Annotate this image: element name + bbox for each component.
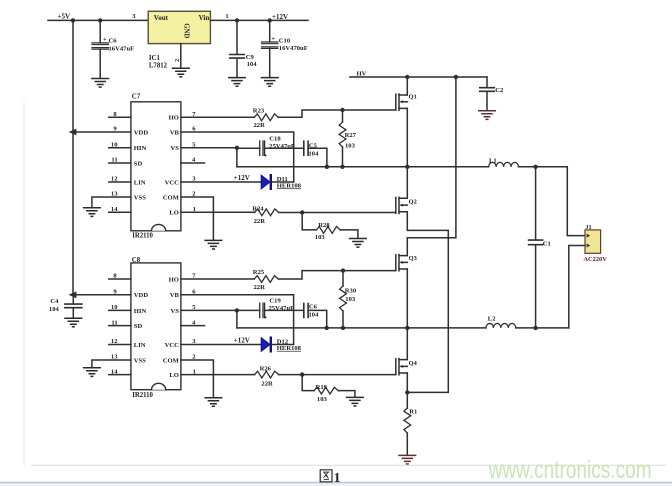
wire pin12 stub chip2 bbox=[109, 344, 131, 346]
wire L1 to J1 pin1 bbox=[519, 167, 586, 236]
svg-text:LO: LO bbox=[169, 372, 179, 379]
junction Q1 drain bbox=[405, 75, 409, 79]
svg-text:HIN: HIN bbox=[134, 145, 147, 152]
pin labels chip1 left bbox=[134, 129, 149, 201]
ground VSS2 bbox=[84, 368, 101, 377]
svg-text:Q3: Q3 bbox=[409, 255, 417, 262]
transistor Q2 bbox=[396, 197, 408, 213]
inductor L1 bbox=[489, 162, 519, 166]
wire pin9 VDD from bus bbox=[73, 131, 131, 133]
svg-text:IC1: IC1 bbox=[149, 55, 161, 62]
wire C18 to C5 bbox=[265, 147, 304, 149]
pin numbers chip2 right bbox=[192, 273, 196, 376]
ground COM2 bbox=[205, 398, 222, 407]
svg-text:22R: 22R bbox=[254, 122, 266, 129]
svg-text:VB: VB bbox=[170, 292, 180, 299]
svg-text:1: 1 bbox=[225, 13, 228, 20]
svg-text:103: 103 bbox=[345, 296, 356, 303]
wire pin11 stub bbox=[109, 162, 131, 164]
svg-text:L7812: L7812 bbox=[149, 62, 168, 69]
diode D12 HER108 bbox=[261, 338, 271, 352]
wire pin10 stub bbox=[109, 147, 131, 149]
capacitor C10 bbox=[262, 42, 278, 48]
ground C10 bbox=[261, 78, 278, 87]
resistor R25 bbox=[254, 276, 278, 283]
junction bus top bbox=[71, 18, 75, 22]
svg-text:L1: L1 bbox=[489, 158, 497, 165]
capacitor C9 bbox=[230, 55, 245, 59]
wire L2 to J1 leg bbox=[516, 327, 569, 329]
pin numbers chip1 left bbox=[111, 111, 118, 213]
svg-text:Q1: Q1 bbox=[409, 94, 417, 101]
wire D12 cathode to VB2 bbox=[271, 344, 293, 346]
svg-text:VCC: VCC bbox=[165, 342, 180, 349]
svg-text:VSS: VSS bbox=[134, 357, 146, 364]
pin numbers chip1 right bbox=[192, 111, 196, 213]
capacitor C6b bbox=[304, 303, 308, 317]
svg-text:3: 3 bbox=[132, 13, 136, 20]
junction C10 top bbox=[268, 18, 272, 22]
diode D11 HER108 bbox=[261, 175, 271, 189]
transistor Q1 bbox=[396, 94, 408, 110]
ground R19 bbox=[347, 397, 364, 406]
wire pin5 VS bbox=[181, 147, 237, 149]
wire C9 branch bbox=[236, 20, 238, 77]
svg-text:IR2110: IR2110 bbox=[132, 392, 153, 399]
svg-text:+12V: +12V bbox=[234, 337, 250, 345]
wire R19 to ground bbox=[338, 391, 355, 398]
junction LO1 bbox=[300, 210, 304, 214]
svg-text:Vout: Vout bbox=[154, 14, 169, 22]
svg-text:1: 1 bbox=[334, 470, 341, 485]
wire +12V rail bbox=[210, 19, 308, 21]
wire Q2 source jog bbox=[407, 212, 448, 393]
svg-text:Q2: Q2 bbox=[409, 199, 417, 206]
wire Q4 drain bbox=[406, 328, 408, 360]
capacitor C4 bbox=[65, 295, 82, 318]
wire C6b right leg bbox=[308, 310, 327, 328]
wire pin11 stub chip2 bbox=[109, 325, 131, 327]
wire R28 to ground bbox=[340, 230, 358, 238]
svg-text:VS: VS bbox=[170, 308, 179, 315]
svg-text:L2: L2 bbox=[488, 316, 496, 323]
svg-text:LIN: LIN bbox=[134, 179, 146, 186]
wire Q3 source to L2 rail bbox=[406, 269, 408, 328]
wire pin12 stub bbox=[109, 181, 131, 183]
transistor Q4 bbox=[396, 359, 408, 375]
pin labels chip2 left bbox=[134, 292, 149, 364]
wire VS rail to L1 bbox=[237, 166, 489, 168]
wire C19 to C6 bbox=[265, 309, 304, 311]
junction LO2 bbox=[300, 372, 304, 376]
junction bus VDD1 bbox=[69, 129, 77, 136]
svg-text:VDD: VDD bbox=[134, 129, 149, 136]
svg-text:+5V: +5V bbox=[58, 12, 71, 20]
wire C1 branch bbox=[535, 167, 537, 328]
svg-text:R28: R28 bbox=[318, 222, 330, 229]
pin numbers chip2 left bbox=[111, 273, 118, 376]
junction C5 rail bbox=[325, 165, 329, 169]
svg-text:R27: R27 bbox=[345, 132, 357, 139]
svg-text:+: + bbox=[103, 36, 107, 43]
resistor R23 bbox=[254, 114, 278, 121]
svg-text:SD: SD bbox=[134, 323, 143, 330]
wire HV right leg down bbox=[407, 77, 456, 256]
wire Q1 source to rail bbox=[406, 108, 408, 166]
resistor R28 bbox=[316, 227, 340, 234]
junction HV right leg bbox=[454, 75, 458, 79]
svg-text:104: 104 bbox=[309, 151, 320, 158]
svg-text:C1: C1 bbox=[543, 240, 551, 247]
junction C1 top bbox=[533, 165, 537, 169]
svg-text:R25: R25 bbox=[253, 269, 265, 276]
transistor Q3 bbox=[396, 255, 408, 271]
junction R30 top bbox=[341, 268, 345, 272]
capacitor C18 bbox=[260, 141, 265, 155]
svg-text:2: 2 bbox=[174, 59, 181, 62]
svg-text:C6: C6 bbox=[309, 303, 318, 310]
resistor R19 bbox=[314, 387, 338, 394]
wire pin6 VB bootstrap bbox=[181, 132, 294, 182]
op-amp U1 driver IC C7 IR2110 body bbox=[131, 102, 181, 231]
svg-text:16V470uF: 16V470uF bbox=[279, 45, 308, 52]
svg-text:www.cntronics.com: www.cntronics.com bbox=[488, 457, 652, 484]
svg-text:104: 104 bbox=[247, 61, 258, 68]
ground regulator bbox=[173, 68, 190, 77]
resistor R1 bbox=[404, 392, 411, 455]
svg-text:+: + bbox=[271, 36, 275, 43]
junction R27 rail bbox=[340, 165, 344, 169]
capacitor C19 bbox=[260, 303, 265, 317]
wire LO1 down to R28 bbox=[302, 213, 316, 230]
svg-text:C6: C6 bbox=[109, 37, 118, 44]
svg-text:IR2110: IR2110 bbox=[132, 233, 153, 240]
junction R27 top bbox=[340, 108, 344, 112]
svg-text:C7: C7 bbox=[132, 94, 141, 101]
svg-text:+12V: +12V bbox=[234, 174, 250, 182]
svg-text:HO: HO bbox=[169, 115, 179, 122]
wire R24 to Q2 gate bbox=[279, 212, 396, 214]
svg-text:SD: SD bbox=[134, 160, 143, 167]
wire Q4 source bbox=[406, 373, 408, 392]
svg-text:22R: 22R bbox=[254, 218, 266, 225]
wire pin3 VCC chip2 bbox=[181, 344, 261, 346]
svg-text:VDD: VDD bbox=[134, 292, 149, 299]
resistor R30 bbox=[340, 271, 347, 328]
resistor R24 bbox=[255, 209, 279, 216]
wire pin7 HO to R23 bbox=[181, 116, 254, 118]
pin labels chip2 right bbox=[163, 276, 180, 379]
ground C2 bbox=[479, 111, 496, 120]
svg-text:R24: R24 bbox=[252, 205, 264, 212]
svg-text:J1: J1 bbox=[585, 224, 591, 231]
junction Q4 source R1 bbox=[405, 390, 409, 394]
capacitor C6 bbox=[92, 43, 108, 49]
svg-text:103: 103 bbox=[315, 234, 326, 241]
svg-text:R1: R1 bbox=[409, 408, 417, 415]
wire Q2 drain bbox=[406, 167, 408, 199]
junction C1 bottom bbox=[533, 326, 537, 330]
svg-text:R30: R30 bbox=[345, 288, 357, 295]
wire regulator GND pin bbox=[180, 44, 182, 68]
svg-text:C19: C19 bbox=[269, 298, 281, 305]
wire pin9 VDD chip2 bbox=[73, 294, 131, 296]
capacitor C1 bbox=[529, 240, 543, 245]
wire pin13 VSS to ground bbox=[92, 197, 131, 207]
svg-text:103: 103 bbox=[317, 396, 328, 403]
wire +5V rail bbox=[48, 19, 148, 21]
wire pin8 stub chip2 bbox=[109, 278, 131, 280]
svg-text:R19: R19 bbox=[316, 384, 328, 391]
junction VS1 bbox=[235, 146, 239, 150]
ground R28 bbox=[350, 239, 367, 248]
wire pin8 stub bbox=[109, 116, 131, 118]
svg-text:AC220V: AC220V bbox=[583, 256, 607, 263]
svg-text:HER108: HER108 bbox=[277, 182, 302, 189]
op-amp U2 driver IC C8 IR2110 body bbox=[131, 263, 181, 390]
ground C6 bbox=[92, 79, 109, 88]
wire C2 branch bbox=[486, 77, 488, 110]
svg-text:+: + bbox=[264, 153, 268, 159]
svg-text:HO: HO bbox=[169, 276, 179, 283]
svg-text:R23: R23 bbox=[253, 107, 265, 114]
wire pin6 VB chip2 bootstrap bbox=[181, 295, 294, 345]
junction C9 top bbox=[235, 18, 239, 22]
svg-text:LO: LO bbox=[169, 210, 179, 217]
ground C4 bbox=[65, 318, 82, 327]
wire pin3 VCC bbox=[181, 181, 261, 183]
svg-text:C10: C10 bbox=[279, 37, 291, 44]
wire pin4 stub right chip2 bbox=[181, 325, 205, 327]
ground R1 bbox=[399, 455, 416, 464]
wire C10 branch bbox=[269, 20, 271, 77]
ground VSS1 bbox=[84, 208, 101, 217]
junction Q3 source rail bbox=[405, 326, 409, 330]
wire VS row to C18 bbox=[237, 147, 260, 149]
junction C6 top bbox=[98, 18, 102, 22]
svg-text:C9: C9 bbox=[246, 54, 255, 61]
wire pin2 COM to ground bbox=[181, 197, 214, 240]
svg-text:COM: COM bbox=[163, 357, 180, 364]
wire C5 right leg bbox=[308, 148, 327, 167]
svg-text:C18: C18 bbox=[269, 136, 281, 143]
svg-text:GND: GND bbox=[183, 23, 190, 38]
wire D11 cathode to VB bbox=[271, 181, 294, 183]
svg-text:Q4: Q4 bbox=[409, 360, 418, 367]
capacitor C2 bbox=[480, 88, 495, 92]
wire VS2 row to C19 bbox=[237, 309, 260, 311]
wire pin5 VS chip2 bbox=[181, 309, 237, 311]
wire pin1 LO to R24 bbox=[181, 211, 255, 213]
svg-text:VCC: VCC bbox=[165, 179, 180, 186]
junction Q1 source rail bbox=[405, 165, 409, 169]
regulator IC1 L7812 bbox=[148, 11, 210, 43]
wire pin7 HO chip2 to R25 bbox=[181, 278, 254, 280]
wire Q1 drain bbox=[406, 77, 408, 95]
wire R25 to Q3 gate bbox=[278, 271, 396, 279]
svg-text:HIN: HIN bbox=[134, 308, 147, 315]
resistor R26 bbox=[255, 371, 279, 378]
wire J1 pin2 to L2 row bbox=[569, 246, 585, 328]
wire left VDD bus bbox=[72, 20, 74, 294]
ground C9 bbox=[229, 78, 246, 87]
svg-text:104: 104 bbox=[49, 306, 60, 313]
svg-text:LIN: LIN bbox=[134, 342, 146, 349]
svg-text:C2: C2 bbox=[495, 87, 504, 94]
junction bus C4 bbox=[69, 291, 77, 298]
capacitor C5 bbox=[304, 141, 308, 155]
wire pin14 stub bbox=[109, 211, 131, 213]
wire pin4 stub bbox=[181, 162, 205, 164]
svg-text:VB: VB bbox=[170, 129, 180, 136]
ground COM1 bbox=[205, 240, 222, 249]
svg-text:+: + bbox=[264, 316, 268, 322]
resistor R27 bbox=[339, 110, 346, 167]
wire pin13 VSS chip2 to ground bbox=[92, 360, 131, 367]
inductor L2 bbox=[486, 323, 516, 327]
svg-text:+12V: +12V bbox=[272, 13, 288, 21]
svg-text:VS: VS bbox=[170, 145, 179, 152]
svg-text:16V47uF: 16V47uF bbox=[109, 46, 135, 53]
svg-text:VSS: VSS bbox=[134, 194, 146, 201]
junction C6b rail bbox=[325, 326, 329, 330]
wire R23 to Q1 gate bbox=[278, 110, 396, 117]
svg-text:22R: 22R bbox=[261, 380, 273, 387]
wire pin14 stub chip2 bbox=[109, 374, 131, 376]
junction VS2 bbox=[235, 308, 239, 312]
svg-text:103: 103 bbox=[345, 142, 356, 149]
wire R26 to Q4 gate bbox=[279, 374, 396, 376]
svg-text:C8: C8 bbox=[132, 257, 141, 264]
wire pin1 LO chip2 to R26 bbox=[181, 374, 255, 376]
junction R30 rail bbox=[341, 326, 345, 330]
svg-text:C4: C4 bbox=[50, 298, 59, 305]
wire VS2 down to rail bbox=[236, 310, 238, 328]
svg-text:HER108: HER108 bbox=[277, 345, 302, 352]
wire VS1 down to rail bbox=[236, 148, 238, 167]
svg-text:COM: COM bbox=[163, 194, 180, 201]
svg-text:Vin: Vin bbox=[199, 14, 210, 22]
wire C6 branch bbox=[99, 20, 101, 77]
wire pin10 stub chip2 bbox=[109, 309, 131, 311]
pin labels chip1 right bbox=[163, 115, 180, 217]
wire L2 rail left segment bbox=[237, 327, 486, 329]
wire HV rail bbox=[350, 76, 487, 78]
svg-text:22R: 22R bbox=[254, 284, 266, 291]
svg-text:R26: R26 bbox=[260, 366, 272, 373]
connector J1 AC220V bbox=[585, 230, 601, 253]
wire LO2 down to R19 bbox=[302, 375, 314, 391]
wire pin2 COM chip2 to ground bbox=[181, 360, 214, 397]
svg-text:104: 104 bbox=[309, 311, 320, 318]
